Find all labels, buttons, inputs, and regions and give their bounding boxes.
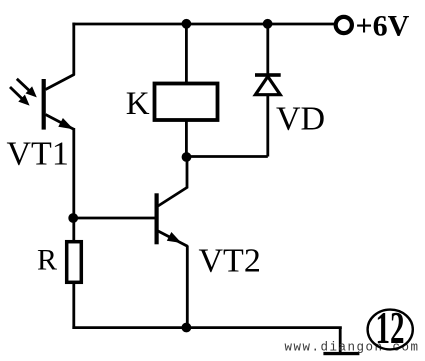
wire ground drop [339,328,342,352]
resistor R [67,242,82,283]
terminal +6V [336,17,352,33]
ground [323,352,359,355]
node base junction [68,213,78,223]
wire R bottom to rail [72,284,75,330]
diode VD [255,73,281,95]
wire bottom rail [72,326,341,329]
wire VD cathode to top rail [266,24,269,74]
svg-text:R: R [37,244,57,277]
node bottom emitter junction [182,323,192,333]
svg-text:12: 12 [376,303,405,353]
relay coil K [155,84,218,121]
node collector/K/VD junction [182,152,192,162]
wire VD anode vertical [266,94,269,157]
wire K bottom [185,120,188,157]
svg-text:VD: VD [276,101,325,138]
svg-text:VT1: VT1 [7,136,69,173]
wire left vertical from top rail [72,23,75,75]
svg-text:+6V: +6V [356,10,410,43]
wire VT2 base [74,217,155,220]
node top rail K junction [182,19,192,29]
circled 12 figure number [368,303,413,353]
svg-text:VT2: VT2 [199,242,261,279]
svg-text:K: K [126,86,150,122]
phototransistor VT1 [10,74,75,129]
node top rail VD junction [263,19,273,29]
wire K top [185,24,188,84]
wire top rail [72,23,334,26]
wire junction to VD anode [187,155,268,158]
wire left vertical (emitter to R) [72,128,75,242]
transistor VT2 [155,187,188,246]
wire VT2 collector vertical [186,157,189,188]
wire VT2 emitter vertical [186,246,189,329]
